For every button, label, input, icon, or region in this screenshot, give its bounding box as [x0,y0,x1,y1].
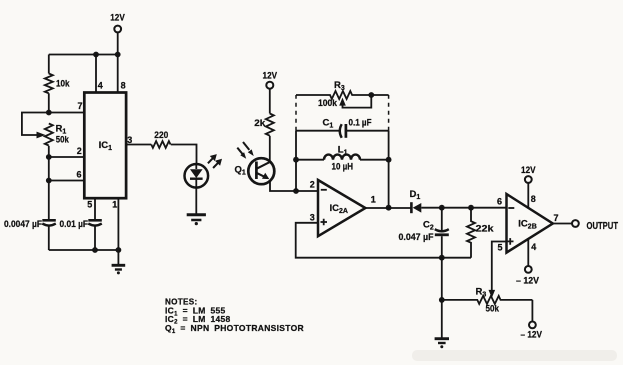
svg-text:6: 6 [77,170,82,180]
wire pin 6 [49,180,85,182]
wire pin 1 [117,198,119,250]
junction dot pin6 node [46,178,52,184]
wire 10k to pin7 node [48,93,50,112]
junction dot bottom rail [439,255,445,261]
svg-text:10k: 10k [56,79,70,90]
wire pin 4 [527,239,529,266]
svg-text:3: 3 [127,135,132,145]
svg-text:12V: 12V [110,12,125,23]
ground (under IC1) [112,250,126,274]
potentiometer R3 50k [442,242,533,315]
svg-text:50k: 50k [56,135,70,146]
svg-text:7: 7 [554,213,559,223]
potentiometer R1 50k [22,113,69,146]
svg-text:5: 5 [87,199,92,209]
output terminal [572,220,618,232]
power terminal 12V (IC2B) [521,165,536,183]
wire dashed right (R3 box) [388,95,390,131]
IC IC1 (LM 555) [84,93,126,199]
wire D1 to IC2B pin6 [421,207,506,209]
wire cap to bottom rail [48,226,50,250]
junction dot node A [293,188,299,194]
power terminal -12V (bottom right) [521,322,543,341]
svg-text:0.01 µF: 0.01 µF [60,219,89,230]
junction dot 22k top [468,205,474,211]
svg-text:4: 4 [98,81,103,91]
ground (LED) [187,215,206,225]
wire cap 0.01 to bottom rail [94,226,96,250]
Q1 light arrows [237,142,253,159]
wire 220 to LED [171,145,197,165]
wire Q1 emitter to node A [270,181,296,191]
junction dot pin2 node [46,154,52,160]
op-amp IC2A [310,180,376,237]
svg-text:10 µH: 10 µH [332,162,354,173]
svg-text:OUTPUT: OUTPUT [587,220,619,232]
power terminal 12V (top left) [110,12,125,32]
svg-text:3: 3 [310,213,315,223]
wire pin 8 [527,183,529,208]
wire pin 7 [49,112,85,114]
power terminal 12V (middle) [263,71,278,89]
wire dashed left (R3 box) [295,95,297,131]
potentiometer R3 100k [296,80,389,109]
svg-text:4: 4 [531,242,536,252]
resistor 2k [254,114,274,136]
wire top rail [49,54,118,56]
svg-text:100k: 100k [318,98,338,109]
wire down from bottom rail [441,258,443,300]
wire IC2A pin3 loop [296,223,471,258]
resistor 220 [151,130,170,148]
svg-text:2k: 2k [254,118,266,129]
wire rail to cap [48,181,50,220]
svg-text:220: 220 [154,130,168,141]
junction dot output node [386,205,392,211]
wire left rail upper [48,55,50,74]
svg-text:2: 2 [77,146,82,156]
power terminal -12V (IC2B) [516,266,540,287]
capacitor C1 0.1 uF [323,118,372,138]
svg-text:– 12V: – 12V [516,276,540,287]
wire feedback right rail [388,131,390,208]
resistor 22k [467,208,494,258]
wire node A to IC2A pin 2 [296,190,318,192]
transistor Q1 (NPN phototransistor) [235,158,275,184]
capacitor 0.01 uF [60,219,102,230]
svg-text:1: 1 [371,195,376,205]
wire 12V to 2k [269,89,271,114]
wire to ground [441,300,443,338]
svg-text:6: 6 [497,197,502,207]
wire R3 to -12V terminal [531,300,533,322]
junction dot pin4 rail [93,52,99,58]
svg-text:12V: 12V [263,71,278,82]
wire pin 3 [126,144,151,146]
svg-text:5: 5 [497,243,502,253]
svg-text:2: 2 [310,180,315,190]
op-amp IC2B [497,194,553,253]
wire LED to ground [195,188,197,214]
svg-text:0.0047 µF: 0.0047 µF [4,219,42,230]
junction dot pin8 rail [115,52,121,58]
svg-text:1: 1 [112,199,117,209]
svg-text:22k: 22k [476,224,495,235]
junction dot cap 0.01 bottom [92,247,98,253]
wire C1 rail [296,130,389,132]
wire IC2A output [365,207,411,209]
LED light arrows [208,154,222,168]
wire rail pin2 to pin6 [48,157,50,181]
wire 12V drop to pin 8 [117,33,119,93]
wire feedback left rail [295,131,297,191]
wire pin 4 [95,55,97,93]
diode D1 [410,189,422,213]
ground (right) [435,339,449,349]
notes text [165,297,304,335]
svg-text:12V: 12V [521,165,536,176]
svg-text:0.047 µF: 0.047 µF [399,232,434,243]
wire R1 to pin2 node [48,146,50,157]
capacitor 0.0047 uF [4,219,56,230]
svg-text:– 12V: – 12V [521,330,543,341]
resistor 10k [45,74,70,94]
junction dot L1 left [293,157,299,163]
LED indicator [185,164,209,188]
svg-text:8: 8 [531,194,536,204]
capacitor C2 0.047 uF [399,208,449,258]
inductor L1 10 uH [296,144,389,172]
svg-text:50k: 50k [486,304,500,315]
svg-text:0.1 µF: 0.1 µF [349,118,372,129]
junction dot pin7 node [46,110,52,116]
junction dot L1 right [386,157,392,163]
wire bottom rail [49,249,119,251]
wire pin 5 [94,198,96,219]
wire pin 2 [49,156,85,158]
junction dot ground node [116,247,122,253]
junction dot R3 node [439,297,445,303]
wire 2k to Q1 collector [269,136,271,163]
svg-text:7: 7 [78,101,83,111]
junction dot C2 top [439,205,445,211]
wire pin 7 output [553,223,572,225]
svg-text:8: 8 [121,81,126,91]
